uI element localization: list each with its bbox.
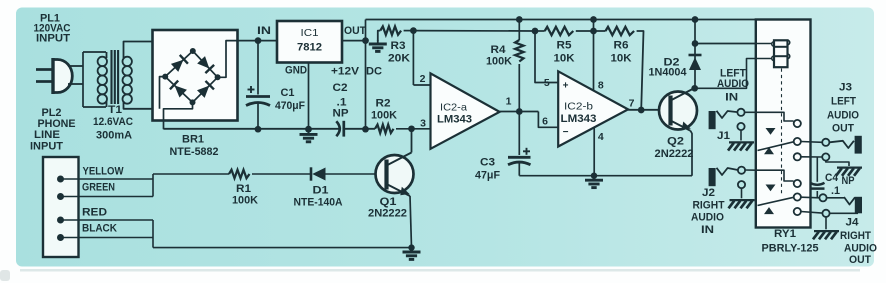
svg-text:100K: 100K [232,195,258,207]
svg-text:OUT: OUT [344,25,366,37]
svg-text:LEFT: LEFT [831,96,856,108]
svg-text:OUT: OUT [849,254,871,266]
svg-text:YELLOW: YELLOW [83,166,125,178]
svg-text:7812: 7812 [297,42,322,54]
svg-text:100K: 100K [486,56,512,68]
svg-text:R4: R4 [491,44,507,56]
svg-text:BR1: BR1 [182,134,204,146]
svg-text:NP: NP [842,175,855,187]
svg-text:J3: J3 [839,82,852,94]
svg-text:PBRLY-125: PBRLY-125 [762,243,819,255]
svg-text:BLACK: BLACK [82,223,117,235]
svg-text:IN: IN [701,224,714,236]
svg-text:AUDIO: AUDIO [717,78,749,90]
svg-text:IC2-a: IC2-a [440,102,467,114]
svg-text:RY1: RY1 [774,228,796,240]
svg-text:20K: 20K [388,53,410,65]
svg-text:AUDIO: AUDIO [827,109,859,121]
svg-text:7: 7 [629,98,635,110]
svg-text:47μF: 47μF [475,170,500,182]
svg-text:300mA: 300mA [96,130,132,142]
svg-text:NP: NP [333,108,349,120]
svg-text:IC2-b: IC2-b [564,101,593,113]
svg-text:LM343: LM343 [437,114,472,126]
svg-text:RED: RED [82,207,107,219]
svg-text:LM343: LM343 [561,113,597,125]
svg-text:3: 3 [420,118,426,130]
svg-text:IN: IN [257,25,271,37]
svg-text:AUDIO: AUDIO [691,212,724,224]
svg-text:C1: C1 [281,87,295,99]
svg-text:2N2222: 2N2222 [655,148,694,160]
svg-text:Q2: Q2 [667,136,684,148]
svg-text:R2: R2 [376,98,391,110]
svg-text:470μF: 470μF [275,100,305,112]
svg-text:10K: 10K [611,52,632,64]
svg-text:10K: 10K [554,52,575,64]
svg-text:+: + [563,81,569,92]
svg-text:D1: D1 [313,185,329,197]
svg-text:J2: J2 [702,187,715,199]
svg-text:−: − [563,127,569,138]
svg-text:INPUT: INPUT [30,141,63,153]
svg-text:4: 4 [598,131,604,143]
svg-text:DC: DC [366,66,382,78]
svg-text:R3: R3 [391,40,406,52]
svg-text:R6: R6 [614,40,629,52]
svg-text:T1: T1 [108,104,122,116]
svg-text:1: 1 [506,96,512,108]
svg-text:IC1: IC1 [301,27,319,39]
svg-text:OUT: OUT [832,123,854,135]
svg-text:1N4004: 1N4004 [649,67,688,79]
svg-text:IN: IN [725,92,738,104]
svg-text:RIGHT: RIGHT [840,230,871,242]
svg-text:AUDIO: AUDIO [844,242,877,254]
svg-text:C2: C2 [333,82,348,94]
svg-text:Q1: Q1 [380,196,397,208]
svg-text:LINE: LINE [34,129,60,141]
svg-text:2: 2 [420,73,426,85]
svg-text:+12V: +12V [331,66,360,78]
svg-text:RIGHT: RIGHT [693,199,725,211]
svg-text:6: 6 [542,116,548,128]
svg-text:.1: .1 [831,185,840,197]
svg-text:C3: C3 [480,157,495,169]
svg-text:GND: GND [285,65,307,77]
svg-text:R1: R1 [236,183,251,195]
svg-text:INPUT: INPUT [36,33,70,45]
svg-text:8: 8 [598,80,604,92]
svg-text:NTE-140A: NTE-140A [294,197,343,209]
svg-text:NTE-5882: NTE-5882 [170,146,219,158]
svg-text:J4: J4 [846,216,860,228]
svg-text:J1: J1 [717,130,730,142]
svg-text:5: 5 [544,77,550,89]
svg-text:GREEN: GREEN [82,182,115,194]
svg-text:R5: R5 [557,40,572,52]
svg-text:100K: 100K [371,109,397,121]
svg-text:12.6VAC: 12.6VAC [93,116,133,128]
svg-text:2N2222: 2N2222 [368,208,407,220]
